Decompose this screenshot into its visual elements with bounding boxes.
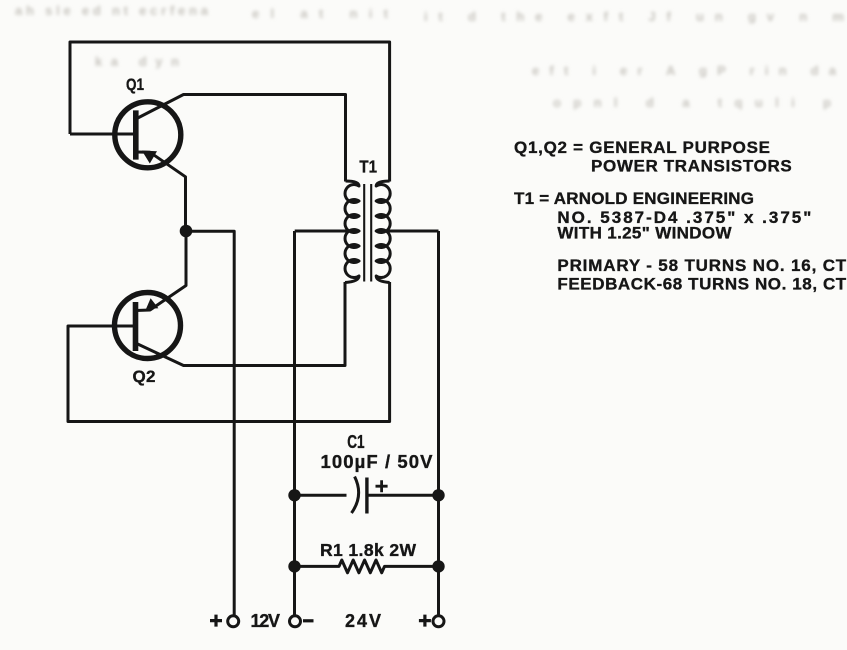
svg-text:T1: T1 [359, 157, 377, 177]
svg-text:FEEDBACK-68 TURNS NO. 18, CT: FEEDBACK-68 TURNS NO. 18, CT [557, 275, 846, 294]
svg-text:el at nit: el at nit [252, 6, 389, 21]
svg-text:Q2: Q2 [133, 367, 156, 386]
svg-text:C1: C1 [347, 432, 364, 452]
svg-text:WITH 1.25" WINDOW: WITH 1.25" WINDOW [557, 224, 732, 243]
svg-text:Q1,Q2 = GENERAL PURPOSE: Q1,Q2 = GENERAL PURPOSE [514, 138, 770, 157]
svg-text:R1 1.8k 2W: R1 1.8k 2W [320, 540, 416, 560]
svg-text:Q1: Q1 [126, 75, 144, 94]
svg-text:T1 = ARNOLD ENGINEERING: T1 = ARNOLD ENGINEERING [514, 189, 754, 208]
svg-text:12V: 12V [251, 611, 281, 631]
svg-text:PRIMARY - 58 TURNS NO. 16, CT: PRIMARY - 58 TURNS NO. 16, CT [557, 256, 846, 275]
svg-text:100µF / 50V: 100µF / 50V [321, 451, 434, 472]
svg-text:POWER TRANSISTORS: POWER TRANSISTORS [591, 157, 792, 176]
svg-text:24V: 24V [345, 611, 382, 631]
